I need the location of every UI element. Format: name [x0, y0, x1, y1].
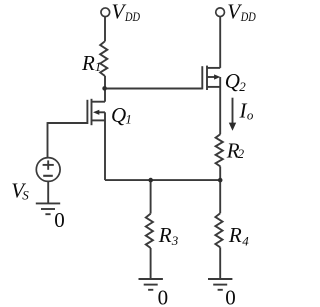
svg-text:DD: DD — [124, 10, 140, 24]
svg-text:Q: Q — [225, 69, 240, 93]
svg-text:R: R — [81, 51, 95, 75]
svg-text:2: 2 — [239, 79, 246, 94]
svg-text:DD: DD — [240, 10, 256, 24]
svg-text:Q: Q — [111, 103, 126, 127]
svg-text:1: 1 — [125, 111, 131, 126]
svg-text:S: S — [22, 188, 29, 203]
svg-text:R: R — [158, 223, 172, 247]
svg-text:0: 0 — [54, 208, 65, 232]
svg-text:2: 2 — [238, 146, 245, 161]
svg-text:1: 1 — [95, 59, 102, 74]
svg-text:0: 0 — [158, 285, 169, 307]
svg-text:0: 0 — [225, 285, 236, 307]
svg-text:4: 4 — [242, 234, 249, 249]
svg-text:R: R — [228, 223, 242, 247]
svg-text:3: 3 — [171, 233, 179, 248]
svg-text:o: o — [247, 107, 254, 122]
